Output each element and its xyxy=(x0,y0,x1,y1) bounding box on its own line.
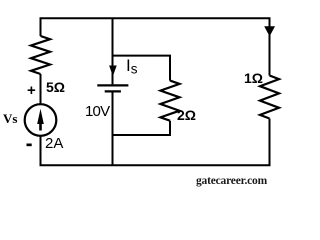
wire bottom rail with left and right risers xyxy=(41,119,270,166)
arrow Is (down) on middle branch xyxy=(109,66,117,77)
battery V1 bottom plate (short) xyxy=(105,90,121,92)
label 2A xyxy=(45,135,63,152)
wire middle branch upper (top rail to battery) xyxy=(112,18,114,84)
polarity plus sign of source xyxy=(27,82,36,99)
label Is xyxy=(126,56,137,77)
wire top rail with left and right corner drops xyxy=(41,18,270,75)
resistor R2 2ohm xyxy=(161,81,180,121)
current source arrow (up) xyxy=(37,109,44,124)
resistor R3 1ohm (right branch) xyxy=(260,76,279,119)
label 10V xyxy=(85,103,109,120)
label 2ohm xyxy=(177,107,196,123)
wire between R1 and current source xyxy=(40,74,42,105)
label Vs xyxy=(3,111,17,127)
label 1ohm xyxy=(244,70,263,86)
wire sub-loop bottom (R2 back to middle branch) xyxy=(113,121,171,135)
resistor R1 5ohm (left branch) xyxy=(31,36,50,74)
polarity minus sign of source xyxy=(27,144,32,147)
battery V1 top plate (long) xyxy=(97,84,128,86)
watermark gatecareer.com xyxy=(196,175,267,187)
current source Vs circle xyxy=(25,104,57,136)
arrow (down) on right branch xyxy=(264,26,275,36)
wire sub-loop top (node to R2) xyxy=(113,56,171,81)
label 5ohm xyxy=(46,79,65,95)
wire middle branch lower (battery to bottom rail) xyxy=(112,91,114,165)
